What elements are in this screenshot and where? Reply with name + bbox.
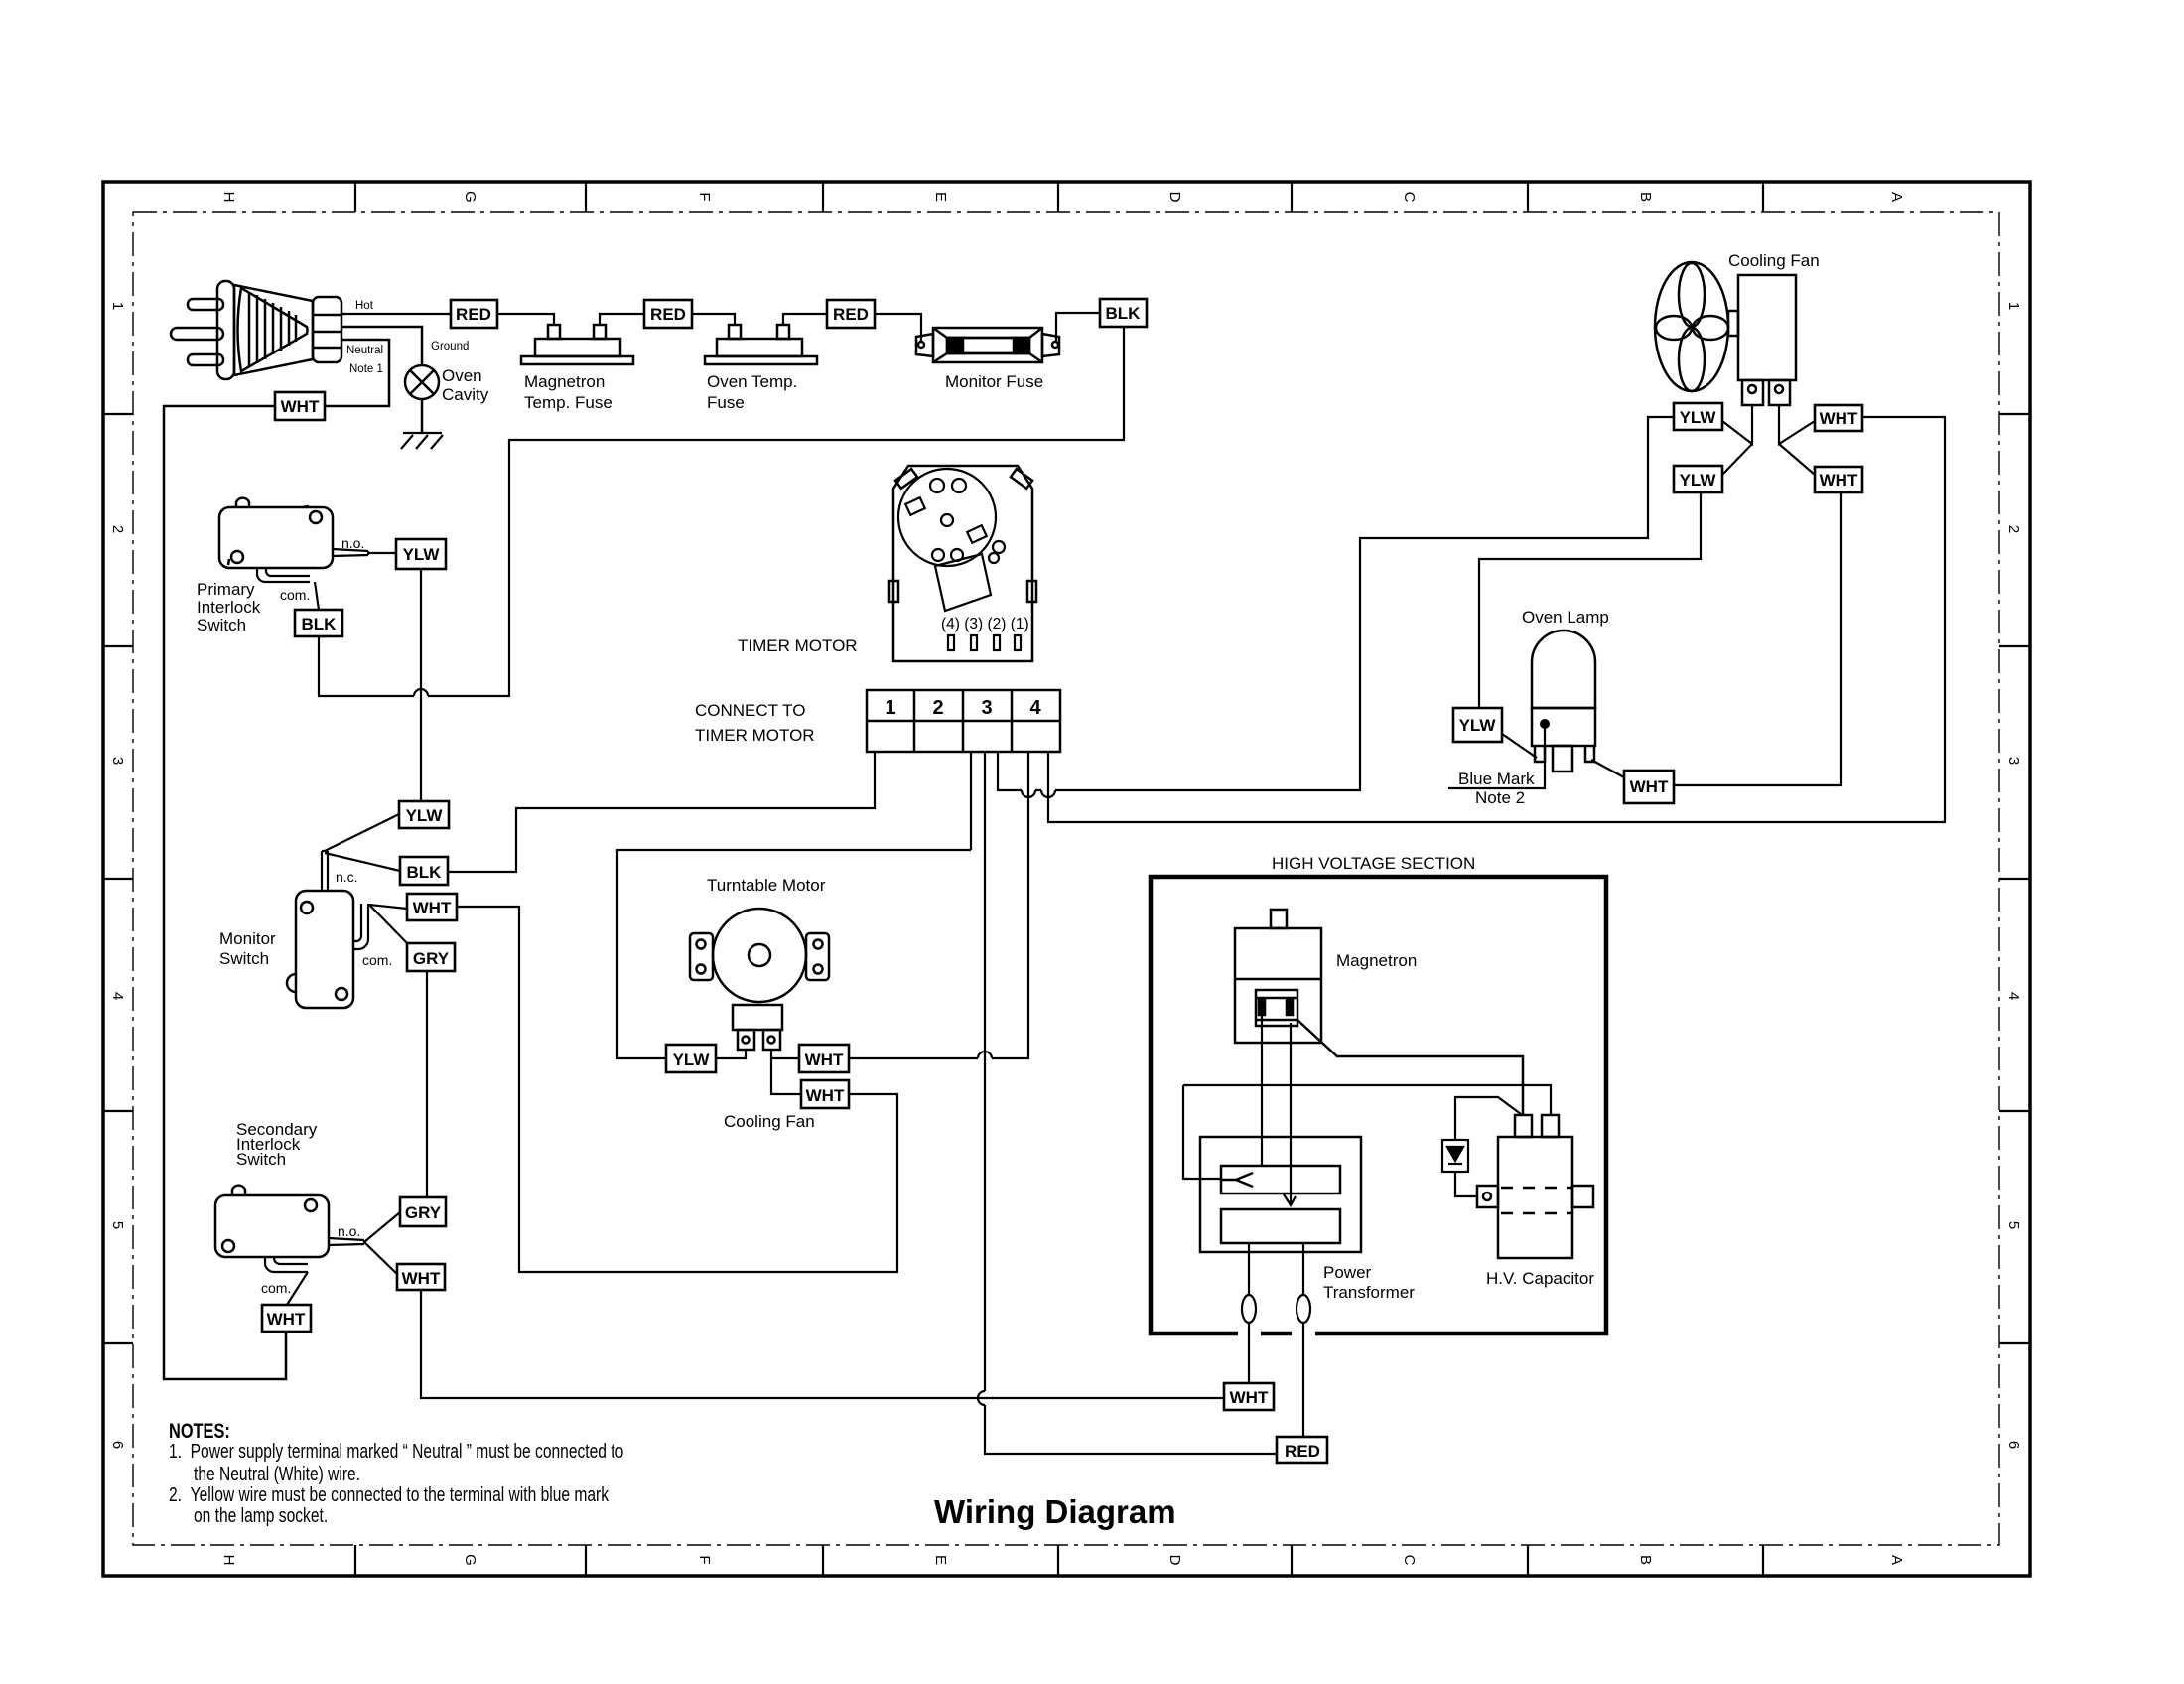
label box GRY (secondary) [400, 1197, 446, 1226]
wire n.c. to YLW diagonal [325, 814, 399, 851]
wire lever to YLW [368, 552, 396, 554]
border bottom cell dividers [355, 1545, 1763, 1576]
H.V. capacitor [1477, 1115, 1593, 1258]
oven cavity lamp [405, 365, 439, 399]
svg-text:G: G [462, 1554, 478, 1566]
svg-text:2: 2 [932, 697, 943, 719]
timer motor pins [948, 635, 1021, 650]
wire n.o. to WHT diagonal [364, 1242, 400, 1277]
label box WHT (cooling fan feed) [801, 1080, 849, 1108]
timer motor body plate [889, 466, 1036, 661]
border bottom letters H G F E D C B A [220, 1554, 1905, 1566]
wire WHT monitor right and down to cooling-fan WHT loop [457, 907, 897, 1272]
HV diode [1442, 1097, 1521, 1196]
svg-text:Magnetron: Magnetron [1336, 951, 1417, 970]
wire neutral: plug to WHT [325, 340, 389, 406]
border top cell dividers [355, 182, 1763, 212]
svg-text:WHT: WHT [281, 397, 320, 416]
svg-text:5: 5 [109, 1221, 126, 1229]
primary interlock switch body [219, 498, 333, 568]
svg-text:C: C [1401, 1555, 1418, 1566]
wire terminal 3a down to turntable loop top [970, 752, 972, 850]
svg-text:Ground: Ground [431, 341, 469, 352]
wire BLK down and across to primary interlock BLK [319, 327, 1124, 696]
svg-text:Monitor Fuse: Monitor Fuse [945, 372, 1043, 391]
wire RED to monitor fuse [875, 313, 1100, 341]
svg-text:5: 5 [2005, 1221, 2022, 1229]
leader line for Blue Mark note [1448, 728, 1545, 788]
monitor fuse [916, 328, 1059, 362]
label box RED (before monitor fuse) [827, 300, 875, 328]
label box WHT (transformer primary) [1224, 1383, 1274, 1410]
label box BLK (primary com) [295, 610, 342, 636]
magnetron [1235, 910, 1321, 1043]
svg-text:RED: RED [650, 305, 686, 324]
svg-text:Neutral: Neutral [346, 345, 383, 356]
wire neutral rail: WHT left down to bottom [164, 406, 286, 1379]
svg-text:D: D [1166, 1555, 1183, 1566]
svg-text:2. Yellow wire must be connec: 2. Yellow wire must be connected to the … [169, 1483, 609, 1505]
wire RED to oven temp fuse [692, 314, 827, 325]
svg-text:1: 1 [2005, 302, 2022, 310]
wire YLW to lamp left prong [1502, 734, 1537, 758]
svg-text:HIGH VOLTAGE SECTION: HIGH VOLTAGE SECTION [1272, 854, 1475, 873]
svg-text:4: 4 [2005, 992, 2022, 1000]
svg-text:4: 4 [109, 992, 126, 1000]
svg-text:Cooling Fan: Cooling Fan [1728, 251, 1820, 270]
svg-text:NOTES:: NOTES: [169, 1419, 230, 1442]
svg-text:the Neutral (White) wire.: the Neutral (White) wire. [194, 1463, 360, 1484]
svg-text:Cavity: Cavity [442, 385, 489, 404]
svg-text:1: 1 [885, 697, 895, 719]
wire ground: plug to oven cavity lamp [342, 327, 422, 365]
svg-text:6: 6 [2005, 1441, 2022, 1449]
blue mark dot on lamp socket [1540, 719, 1550, 729]
label box WHT (turntable) [799, 1045, 849, 1072]
svg-text:B: B [1637, 1555, 1654, 1565]
svg-text:2: 2 [109, 525, 126, 533]
oven lamp bulb and socket [1532, 631, 1595, 772]
svg-text:H: H [220, 192, 237, 203]
label box WHT (secondary com) [262, 1305, 311, 1332]
svg-text:WHT: WHT [806, 1086, 845, 1105]
hop arc of horizontal y=1066 over vertical x=992 [978, 1052, 992, 1058]
hop arcs on horizontal y=796 over verticals x=1036 and x=1056 [1022, 790, 1055, 797]
label box YLW (primary n.o.) [396, 539, 446, 569]
svg-text:C: C [1401, 192, 1418, 203]
wire hot: plug to RED [341, 313, 451, 315]
wire YLW lower down-left-down to oven lamp YLW [1479, 491, 1701, 708]
wire lamp to ground symbol [421, 399, 424, 433]
cooling fan blade globe [1655, 262, 1738, 391]
svg-text:3: 3 [109, 757, 126, 765]
border right cell dividers [1999, 414, 2030, 1343]
drawing border outer frame [103, 182, 2030, 1576]
label box YLW (cooling fan lower) [1674, 466, 1722, 492]
primary interlock com. terminal [257, 568, 310, 582]
svg-text:Cooling Fan: Cooling Fan [724, 1112, 815, 1131]
svg-text:Oven Temp.: Oven Temp. [707, 372, 797, 391]
label box RED (plug hot) [451, 300, 497, 328]
svg-text:Temp. Fuse: Temp. Fuse [524, 393, 613, 412]
transformer primary leads with loops [1242, 1243, 1310, 1437]
svg-text:Oven: Oven [442, 366, 482, 385]
wire com to WHT bottom diagonal [287, 1272, 308, 1305]
svg-text:YLW: YLW [673, 1051, 711, 1069]
border left cell dividers [103, 414, 133, 1343]
label box BLK (monitor n.c.) [400, 857, 448, 885]
AC power plug P1 [171, 281, 341, 379]
svg-text:YLW: YLW [406, 806, 444, 825]
svg-text:H: H [220, 1555, 237, 1566]
label box GRY (monitor com) [407, 943, 455, 971]
svg-text:F: F [696, 192, 713, 201]
svg-text:com.: com. [261, 1280, 291, 1296]
border top letters H G F E D C B A [220, 191, 1905, 203]
turntable motor [690, 909, 829, 1050]
svg-text:(4) (3) (2) (1): (4) (3) (2) (1) [941, 616, 1029, 632]
wire magnetron output diagonal to HV capacitor [1297, 1020, 1523, 1115]
svg-text:2: 2 [2005, 525, 2022, 533]
svg-text:WHT: WHT [1820, 471, 1858, 490]
svg-text:F: F [696, 1555, 713, 1564]
svg-text:Note 1: Note 1 [349, 363, 383, 375]
svg-text:BLK: BLK [407, 863, 443, 882]
svg-text:Wiring Diagram: Wiring Diagram [934, 1493, 1176, 1530]
svg-text:GRY: GRY [413, 949, 450, 968]
border left numbers 1-6 [109, 302, 126, 1449]
svg-text:CONNECT TO: CONNECT TO [695, 701, 805, 720]
wire terminal 4b right bus to cooling fan WHT (upper) [1048, 417, 1945, 822]
label box WHT (monitor com) [407, 894, 457, 920]
hop arc of vertical x=992 over bus y=1408 [978, 1391, 985, 1405]
wire hop arc at x=424 y=701 [414, 689, 428, 696]
wire RED to magnetron temp fuse [497, 314, 644, 325]
svg-text:Power: Power [1323, 1263, 1372, 1282]
secondary interlock com. terminal [265, 1257, 308, 1272]
wire com to WHT [369, 905, 407, 909]
wire YLW primary down to YLW monitor (passes under hop at y=701) [420, 569, 422, 801]
svg-text:3: 3 [981, 697, 992, 719]
svg-text:GRY: GRY [405, 1203, 442, 1222]
svg-text:WHT: WHT [1630, 777, 1669, 796]
wire magnetron filament left to transformer filament winding [1261, 1015, 1263, 1166]
monitor switch body [287, 891, 353, 1008]
oven temp. fuse [705, 325, 817, 364]
label box RED (between fuses) [644, 300, 692, 328]
svg-text:Fuse: Fuse [707, 393, 745, 412]
turntable motor loop wire (left/top) [617, 850, 971, 1058]
svg-text:Magnetron: Magnetron [524, 372, 605, 391]
svg-text:com.: com. [362, 952, 392, 968]
svg-text:Turntable Motor: Turntable Motor [707, 876, 826, 895]
svg-text:H.V. Capacitor: H.V. Capacitor [1486, 1269, 1594, 1288]
svg-text:Hot: Hot [355, 300, 374, 312]
svg-text:Blue Mark: Blue Mark [1458, 770, 1535, 788]
svg-text:TIMER MOTOR: TIMER MOTOR [738, 636, 858, 655]
svg-text:A: A [1888, 1555, 1905, 1565]
label box WHT (oven lamp) [1624, 771, 1674, 803]
svg-text:B: B [1637, 192, 1654, 202]
svg-text:WHT: WHT [267, 1310, 306, 1329]
wire magnetron filament right to transformer secondary (arrow) [1284, 1023, 1296, 1205]
svg-text:Switch: Switch [236, 1150, 286, 1169]
svg-text:WHT: WHT [413, 899, 452, 917]
svg-text:BLK: BLK [302, 615, 338, 633]
svg-text:BLK: BLK [1106, 304, 1142, 323]
svg-text:A: A [1888, 192, 1905, 202]
wire com to BLK [315, 582, 319, 610]
svg-text:Switch: Switch [219, 949, 269, 968]
svg-text:YLW: YLW [1680, 471, 1717, 490]
high voltage section enclosure [1151, 877, 1606, 1333]
svg-text:WHT: WHT [402, 1269, 441, 1288]
svg-text:TIMER MOTOR: TIMER MOTOR [695, 726, 815, 745]
wire com to GRY diagonal [369, 905, 408, 944]
wire WHT lower down to oven lamp WHT [1674, 492, 1841, 785]
monitor switch n.c. lever [322, 851, 328, 891]
wire terminal 3b long drop to RED (hops y=1066 and y=1408) [985, 752, 1277, 1454]
label box YLW (turntable) [666, 1045, 716, 1072]
svg-text:YLW: YLW [1680, 408, 1717, 427]
svg-text:RED: RED [1285, 1442, 1320, 1461]
svg-text:Switch: Switch [197, 616, 246, 634]
svg-text:Note 2: Note 2 [1475, 788, 1525, 807]
wire terminal 3c right bus to cooling fan YLW chain [998, 417, 1674, 790]
wire WHT secondary down to bottom bus [421, 1290, 1224, 1398]
timer motor cam circle [898, 469, 1005, 611]
label box YLW (monitor n.c.) [399, 801, 449, 828]
cooling fan motor [1738, 275, 1796, 405]
monitor switch com. terminal [353, 904, 368, 949]
svg-text:com.: com. [280, 587, 310, 603]
svg-text:Oven Lamp: Oven Lamp [1522, 608, 1609, 627]
wires cooling fan terminals to YLW/WHT labels [1722, 405, 1815, 475]
svg-text:RED: RED [833, 305, 869, 324]
label box WHT (cooling fan upper) [1815, 405, 1862, 431]
wire n.o. to GRY diagonal [364, 1212, 400, 1242]
svg-text:n.o.: n.o. [341, 535, 364, 551]
label box YLW (oven lamp) [1453, 708, 1502, 742]
label box RED (transformer primary) [1277, 1437, 1327, 1463]
secondary interlock n.o. lever [329, 1238, 364, 1245]
label box WHT (secondary n.o.) [397, 1264, 445, 1290]
wire HV winding to capacitor right terminal [1183, 1085, 1551, 1179]
svg-text:WHT: WHT [805, 1051, 844, 1069]
svg-text:WHT: WHT [1820, 409, 1858, 428]
connect-to-timer-motor terminal table [867, 690, 1060, 752]
secondary interlock switch body [215, 1186, 329, 1257]
label box WHT (cooling fan lower) [1815, 467, 1862, 492]
svg-text:Monitor: Monitor [219, 929, 276, 948]
svg-text:Transformer: Transformer [1323, 1283, 1415, 1302]
svg-text:Primary: Primary [197, 580, 255, 599]
label box YLW (cooling fan upper) [1674, 403, 1722, 430]
svg-text:3: 3 [2005, 757, 2022, 765]
terminal numbers 1 2 3 4 [885, 697, 1041, 719]
svg-text:D: D [1166, 192, 1183, 203]
svg-text:E: E [932, 192, 949, 202]
svg-text:4: 4 [1029, 697, 1041, 719]
primary interlock actuator lever n.o. [333, 549, 368, 556]
wire GRY monitor down to GRY secondary [426, 971, 428, 1197]
wire terminal 4a down to turntable WHT (upper) [849, 752, 1028, 1058]
svg-text:n.c.: n.c. [336, 869, 358, 885]
wire n.c. to BLK diagonal [325, 853, 400, 871]
wire lamp right prong to WHT [1591, 760, 1624, 777]
svg-text:Interlock: Interlock [197, 598, 261, 617]
svg-text:1. Power supply terminal mark: 1. Power supply terminal marked “ Neutra… [169, 1440, 623, 1462]
svg-text:on the lamp socket.: on the lamp socket. [194, 1504, 328, 1526]
svg-text:RED: RED [456, 305, 491, 324]
wire BLK monitor to timer terminal 1 [448, 752, 875, 872]
svg-text:YLW: YLW [1459, 716, 1497, 735]
drawing border inner dash-dot frame [133, 212, 1999, 1545]
svg-text:1: 1 [109, 302, 126, 310]
svg-text:WHT: WHT [1230, 1388, 1269, 1407]
svg-text:E: E [932, 1555, 949, 1565]
svg-text:YLW: YLW [403, 545, 441, 564]
ground symbol [401, 433, 443, 449]
svg-text:n.o.: n.o. [338, 1223, 360, 1239]
label box WHT (plug neutral) [275, 392, 325, 420]
border right numbers 1-6 [2005, 302, 2022, 1449]
label box BLK (monitor fuse out) [1100, 299, 1147, 327]
magnetron temp. fuse [521, 325, 633, 364]
power transformer box [1200, 1137, 1361, 1252]
svg-text:6: 6 [109, 1441, 126, 1449]
wire turntable terminals to YLW / WHT labels [716, 1050, 801, 1094]
svg-text:G: G [462, 191, 478, 203]
